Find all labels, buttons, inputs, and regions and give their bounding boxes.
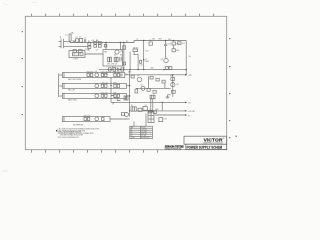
stamp block <box>165 145 184 151</box>
bus bar XA3 row3 <box>62 93 126 98</box>
regulator Q10 <box>95 94 99 98</box>
capacitor C9 <box>149 42 152 45</box>
svg-text:XA3 LOGIC: XA3 LOGIC <box>68 99 78 102</box>
resistor R24 <box>147 88 150 91</box>
resistor R15 <box>113 68 116 71</box>
row4 cluster a <box>84 117 90 120</box>
svg-text:Q4: Q4 <box>95 71 97 73</box>
capacitor C6 <box>79 50 82 53</box>
wire drop c2 <box>129 52 131 70</box>
diode CR2 <box>114 57 118 62</box>
varistor RV1 <box>73 50 76 53</box>
regulator Q4 <box>95 73 99 77</box>
wire cap bank feed a <box>150 99 152 112</box>
transistor Q8 <box>125 113 129 117</box>
wire neutral input <box>64 47 88 51</box>
svg-text:C13: C13 <box>145 50 148 52</box>
svg-text:R46 C47: R46 C47 <box>84 116 91 118</box>
svg-text:R7: R7 <box>126 41 128 43</box>
capacitor C25 <box>124 96 128 100</box>
wire vr1 link <box>173 45 175 49</box>
bus bar XA4 row4 <box>62 117 110 122</box>
svg-text:REF: REF <box>131 127 134 129</box>
wire -5V run <box>155 114 185 116</box>
resistor R28 <box>171 78 175 81</box>
svg-text:U1: U1 <box>145 105 147 107</box>
svg-text:VR1: VR1 <box>176 43 179 45</box>
capacitor C12 <box>140 60 142 63</box>
svg-text:S1: S1 <box>72 41 74 43</box>
row3 cluster a <box>101 94 107 97</box>
resistor R32 <box>154 111 157 114</box>
wire step <box>134 52 138 70</box>
inductor L2 <box>73 53 79 56</box>
resistor R9 <box>104 45 107 48</box>
resistor R21 <box>150 76 153 79</box>
svg-text:P1: P1 <box>131 129 133 131</box>
wire mid v2 <box>164 83 166 88</box>
resistor R27 <box>169 67 172 70</box>
svg-text:C10: C10 <box>168 43 171 45</box>
svg-text:Q1: Q1 <box>120 51 122 53</box>
note marker <box>56 130 57 131</box>
svg-text:K1: K1 <box>131 105 133 107</box>
bus bar XA1 row1 <box>62 73 124 78</box>
svg-text:POWER SYSTEMS INC: POWER SYSTEMS INC <box>165 149 182 151</box>
transistor Q5 <box>137 77 142 82</box>
notes <box>58 128 100 139</box>
svg-text:MOTHER BD: MOTHER BD <box>73 124 84 126</box>
resistor R31 <box>148 110 152 113</box>
svg-text:CR4: CR4 <box>158 39 161 41</box>
capacitor C14 <box>118 68 119 71</box>
svg-text:R32: R32 <box>155 109 158 111</box>
wire out branch <box>172 75 174 97</box>
svg-text:XA1 DISK DRIVE: XA1 DISK DRIVE <box>68 78 82 81</box>
svg-text:R44: R44 <box>113 83 116 85</box>
inductor L1 <box>79 38 82 42</box>
resistor R16 <box>121 68 124 71</box>
wire drop d <box>129 70 131 117</box>
svg-text:VICTOR: VICTOR <box>204 137 223 143</box>
row2 cluster b <box>114 84 120 87</box>
bus bar XA2 row2 <box>62 83 126 88</box>
svg-text:NOTE: UNLESS OTHERWISE NOTED: NOTE: UNLESS OTHERWISE NOTED <box>58 137 80 139</box>
fuse F1 <box>69 34 71 41</box>
wire right edge drop <box>185 41 187 75</box>
wire drop c <box>123 43 125 70</box>
table power chart <box>130 126 153 138</box>
wire table stub a <box>133 121 135 126</box>
svg-text:R42 C42: R42 C42 <box>113 72 120 74</box>
capacitor bank C30-C35 <box>148 112 154 123</box>
capacitor C29 <box>159 118 163 122</box>
wire bottom link <box>112 102 114 104</box>
transistor Q7 <box>141 86 145 90</box>
zener VR1 <box>172 42 175 45</box>
drawing frame <box>25 16 226 149</box>
wire mid vertical <box>110 77 112 102</box>
wire row2 out <box>126 85 129 87</box>
capacitor C10 <box>164 41 167 59</box>
wire drop a <box>105 43 107 50</box>
zener VR2 <box>135 89 138 93</box>
resistor R14 <box>109 68 112 71</box>
row1 cluster c <box>114 73 122 76</box>
capacitor C5 <box>98 45 101 47</box>
svg-text:R2: R2 <box>88 49 90 51</box>
svg-text:L2 FLT: L2 FLT <box>73 59 78 61</box>
svg-text:Q5: Q5 <box>137 75 139 77</box>
svg-text:R4: R4 <box>114 55 116 57</box>
title block border <box>184 136 227 149</box>
svg-text:C14: C14 <box>114 68 117 70</box>
transistor Q6 <box>171 83 175 87</box>
svg-text:R11: R11 <box>182 43 185 45</box>
capacitor C4 <box>94 45 97 47</box>
svg-text:L2: L2 <box>73 54 75 56</box>
connector J1 <box>58 39 63 48</box>
IC U1 <box>143 107 147 111</box>
connector P2 <box>150 95 155 99</box>
wire box link <box>85 53 103 55</box>
wire harness trunk <box>58 74 60 98</box>
tiny component labels <box>60 31 196 126</box>
row1 cluster b <box>101 73 107 76</box>
svg-text:CR5: CR5 <box>150 68 153 70</box>
faint scan speck b <box>32 2 37 4</box>
wire +12V run <box>125 74 185 76</box>
svg-text:B+: B+ <box>189 56 191 58</box>
svg-text:R12: R12 <box>168 39 171 41</box>
ground <box>166 95 171 98</box>
svg-text:C2: C2 <box>84 38 86 40</box>
table text <box>131 127 151 139</box>
svg-text:T1: T1 <box>136 39 138 41</box>
wire link arrows <box>161 102 163 111</box>
diode CR1 <box>108 57 112 62</box>
svg-text:-12V RET: -12V RET <box>188 111 195 113</box>
row4 cluster b <box>102 117 104 120</box>
EMI filter box <box>69 51 85 58</box>
svg-text:P2: P2 <box>131 131 133 133</box>
relay K1 <box>131 107 136 111</box>
resistor R29 <box>172 90 176 93</box>
regulator Q11 <box>95 117 99 121</box>
wire -12V run <box>136 110 185 112</box>
svg-text:R28: R28 <box>170 76 173 78</box>
svg-text:R5: R5 <box>120 54 122 56</box>
svg-text:Q7: Q7 <box>141 85 143 87</box>
svg-text:XA2 CRT: XA2 CRT <box>68 89 75 92</box>
resistor R30 <box>138 108 142 111</box>
svg-text:Q3: Q3 <box>161 59 163 61</box>
svg-text:J1: J1 <box>60 37 62 39</box>
resistor R8 <box>133 49 138 52</box>
transistor Q3 <box>164 58 168 62</box>
wire table stub b <box>145 113 147 126</box>
switch S1 <box>73 40 76 42</box>
row1 cluster a <box>87 73 93 76</box>
junction dots <box>105 40 187 112</box>
svg-text:R1: R1 <box>88 41 90 43</box>
svg-text:F1: F1 <box>66 35 68 37</box>
rectifier box <box>103 50 123 67</box>
resistor R11 <box>178 42 181 45</box>
svg-text:CR1 CR2 C8: CR1 CR2 C8 <box>107 64 117 66</box>
wire row4 out <box>110 118 130 120</box>
row2 cluster a <box>101 84 107 87</box>
resistor R25 <box>153 90 156 93</box>
resistor R2 <box>88 46 91 48</box>
resistor R33 <box>122 113 125 116</box>
svg-text:POWER SUPPLY SCHEM: POWER SUPPLY SCHEM <box>187 145 223 149</box>
resistor R7 <box>123 46 126 49</box>
svg-text:P4: P4 <box>131 135 133 137</box>
svg-text:C2: C2 <box>85 49 87 51</box>
wire line input <box>64 41 70 43</box>
faint scan speck a <box>3 4 8 6</box>
svg-text:C3: C3 <box>92 41 94 43</box>
capacitor C8 <box>120 57 121 62</box>
wire drop b <box>113 43 121 70</box>
svg-text:R3: R3 <box>96 41 98 43</box>
svg-text:C29: C29 <box>164 118 167 120</box>
svg-text:CR3: CR3 <box>128 71 131 73</box>
capacitor C2 <box>84 39 85 42</box>
svg-text:C5: C5 <box>96 50 98 52</box>
wire staircase <box>111 96 120 101</box>
resistor R10 <box>172 49 175 52</box>
arrowheads <box>185 74 187 116</box>
capacitor C11 <box>123 62 126 65</box>
svg-text:POWER 85W: POWER 85W <box>141 137 150 139</box>
wire cap bank feed b <box>152 99 154 112</box>
wire lower rail <box>99 69 186 71</box>
inductor L3 <box>80 53 83 56</box>
wire drop c3 <box>143 41 145 70</box>
faint scan mark <box>2 170 8 172</box>
svg-text:R45: R45 <box>113 93 116 95</box>
wire +5V run <box>111 101 185 103</box>
resistor R1 <box>88 43 91 45</box>
resistor R23 <box>162 80 165 83</box>
transistor Q1 <box>115 50 119 54</box>
wire fuse to rail <box>69 41 71 42</box>
svg-text:L1: L1 <box>79 36 81 38</box>
capacitor C1 <box>76 39 79 42</box>
logo registered mark <box>223 138 224 139</box>
svg-text:C1: C1 <box>76 37 78 39</box>
capacitor C3 <box>94 42 97 44</box>
resistor R3 <box>98 42 101 44</box>
svg-text:P3: P3 <box>131 133 133 135</box>
wire mid v <box>148 76 150 88</box>
svg-text:C20: C20 <box>105 74 108 76</box>
resistor R20 <box>131 75 134 78</box>
wire mid h <box>136 87 171 89</box>
resistor R26 <box>165 67 168 70</box>
wire row3 out <box>126 95 129 97</box>
svg-text:C45 C46: C45 C46 <box>101 93 108 95</box>
wire AC rail <box>70 41 186 43</box>
row3 cluster b <box>114 94 120 97</box>
svg-text:VOLTS: VOLTS <box>141 127 146 129</box>
svg-text:C12: C12 <box>140 65 143 67</box>
svg-text:Q6: Q6 <box>176 84 178 86</box>
wire trunk stubs <box>59 75 63 96</box>
svg-text:R10: R10 <box>176 50 179 52</box>
resistor R22 <box>156 78 159 81</box>
svg-text:C43 C44: C43 C44 <box>101 83 108 85</box>
svg-text:C26: C26 <box>125 74 128 76</box>
svg-text:R40 R41: R40 R41 <box>87 72 94 74</box>
regulator Q9 <box>95 84 99 88</box>
